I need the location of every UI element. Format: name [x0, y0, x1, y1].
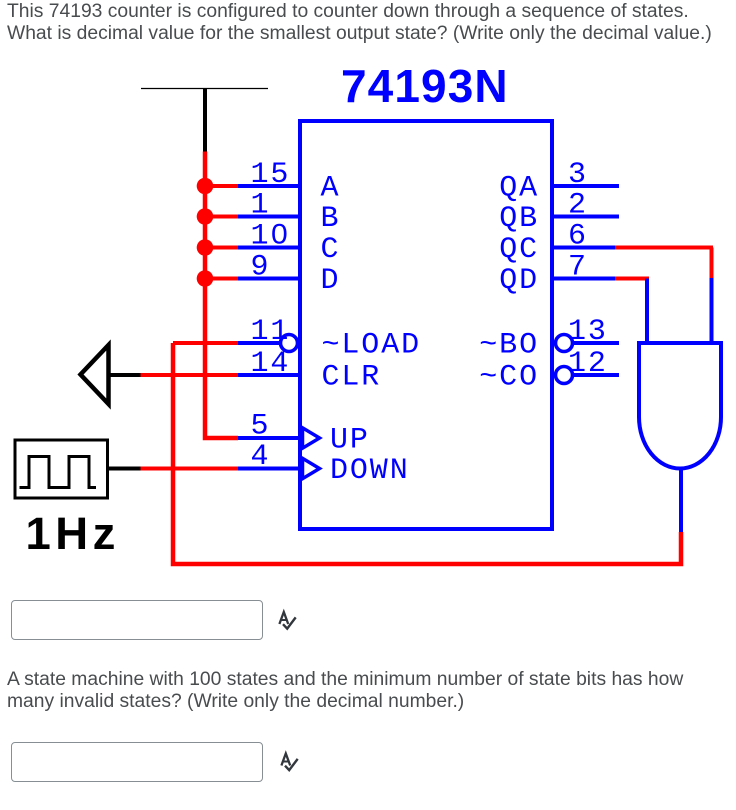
svg-text:~BO: ~BO — [479, 329, 539, 363]
svg-text:DOWN: DOWN — [330, 454, 410, 488]
svg-text:14: 14 — [251, 347, 291, 381]
svg-text:9: 9 — [251, 251, 271, 285]
svg-text:QA: QA — [499, 172, 539, 206]
svg-text:2: 2 — [568, 189, 588, 223]
svg-text:~LOAD: ~LOAD — [322, 329, 422, 363]
svg-text:5: 5 — [251, 410, 271, 444]
svg-text:11: 11 — [251, 315, 291, 349]
svg-text:D: D — [321, 264, 341, 298]
svg-text:QD: QD — [499, 264, 539, 298]
svg-text:1: 1 — [251, 189, 271, 223]
svg-text:74193N: 74193N — [341, 60, 509, 112]
svg-text:QB: QB — [499, 202, 539, 236]
svg-text:~CO: ~CO — [479, 361, 539, 395]
svg-text:3: 3 — [568, 158, 588, 192]
svg-text:6: 6 — [568, 220, 588, 254]
svg-text:UP: UP — [330, 424, 370, 458]
svg-text:A: A — [321, 172, 341, 206]
svg-text:1Hz: 1Hz — [26, 508, 120, 559]
svg-text:C: C — [321, 233, 341, 267]
svg-text:CLR: CLR — [322, 361, 382, 395]
svg-text:B: B — [321, 202, 341, 236]
svg-text:13: 13 — [568, 315, 608, 349]
svg-text:7: 7 — [568, 251, 588, 285]
svg-text:4: 4 — [251, 440, 271, 474]
svg-text:10: 10 — [251, 220, 291, 254]
svg-text:12: 12 — [568, 347, 608, 381]
svg-text:15: 15 — [251, 158, 291, 192]
svg-text:QC: QC — [499, 233, 539, 267]
